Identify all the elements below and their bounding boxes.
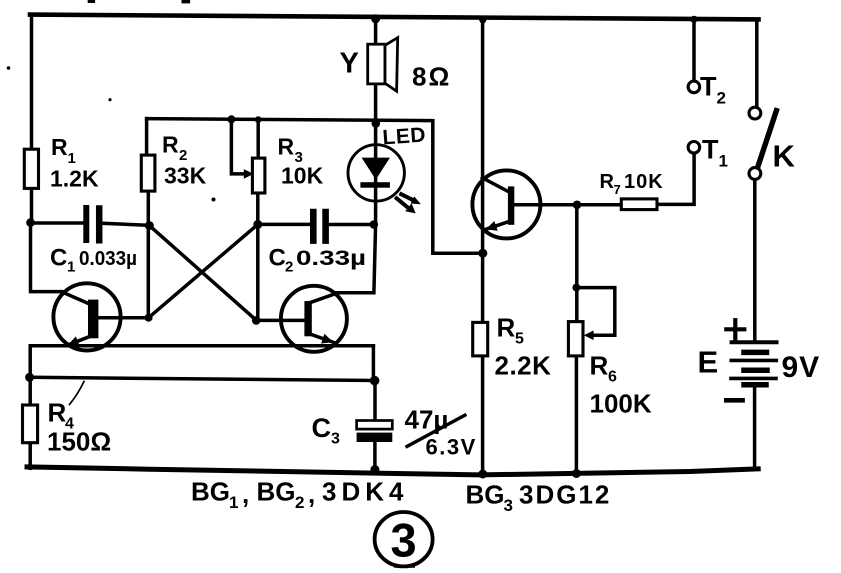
- svg-text:,: ,: [242, 479, 249, 509]
- svg-text:BG: BG: [191, 477, 230, 507]
- svg-text:T: T: [700, 72, 717, 102]
- svg-text:47µ: 47µ: [405, 405, 449, 435]
- svg-text:6.3V: 6.3V: [426, 435, 477, 460]
- svg-text:10K: 10K: [624, 171, 664, 193]
- svg-text:3: 3: [331, 431, 340, 448]
- svg-text:5: 5: [515, 331, 524, 348]
- svg-text:R: R: [278, 134, 295, 160]
- svg-text:3DG12: 3DG12: [519, 480, 611, 510]
- svg-text:E: E: [698, 345, 719, 380]
- svg-text:,: ,: [308, 479, 315, 509]
- svg-text:1: 1: [68, 150, 76, 167]
- svg-text:0.033µ: 0.033µ: [79, 248, 137, 270]
- svg-text:10K: 10K: [281, 163, 324, 189]
- svg-text:3: 3: [391, 514, 417, 567]
- svg-text:6: 6: [608, 369, 617, 386]
- svg-text:1: 1: [719, 152, 728, 171]
- svg-text:1.2K: 1.2K: [50, 166, 99, 192]
- svg-text:BG: BG: [466, 480, 505, 510]
- svg-text:3DK4: 3DK4: [322, 477, 408, 507]
- svg-text:33K: 33K: [164, 163, 207, 189]
- svg-text:150Ω: 150Ω: [47, 427, 111, 457]
- svg-text:2.2K: 2.2K: [495, 351, 552, 381]
- svg-text:9V: 9V: [782, 351, 821, 384]
- svg-text:C: C: [269, 245, 286, 272]
- svg-text:R: R: [497, 313, 516, 343]
- svg-text:C: C: [50, 245, 67, 272]
- svg-text:R: R: [600, 171, 615, 193]
- svg-text:BG: BG: [257, 477, 296, 507]
- svg-text:R: R: [48, 398, 67, 428]
- svg-text:2: 2: [717, 89, 726, 108]
- svg-text:1: 1: [229, 493, 238, 512]
- svg-text:T: T: [702, 135, 719, 165]
- svg-text:2: 2: [295, 493, 304, 512]
- svg-text:0.33µ: 0.33µ: [296, 247, 366, 270]
- svg-text:2: 2: [179, 147, 187, 164]
- svg-text:R: R: [51, 134, 68, 160]
- svg-text:K: K: [773, 139, 796, 174]
- svg-text:3: 3: [504, 496, 513, 515]
- svg-text:100K: 100K: [590, 389, 652, 419]
- svg-text:Y: Y: [340, 48, 359, 80]
- svg-text:1: 1: [67, 259, 75, 276]
- svg-text:7: 7: [614, 182, 621, 197]
- svg-text:R: R: [162, 132, 179, 158]
- svg-text:2: 2: [285, 259, 293, 276]
- svg-text:LED: LED: [382, 124, 427, 150]
- svg-text:8Ω: 8Ω: [412, 62, 451, 92]
- svg-text:C: C: [312, 413, 332, 443]
- svg-text:R: R: [590, 351, 609, 381]
